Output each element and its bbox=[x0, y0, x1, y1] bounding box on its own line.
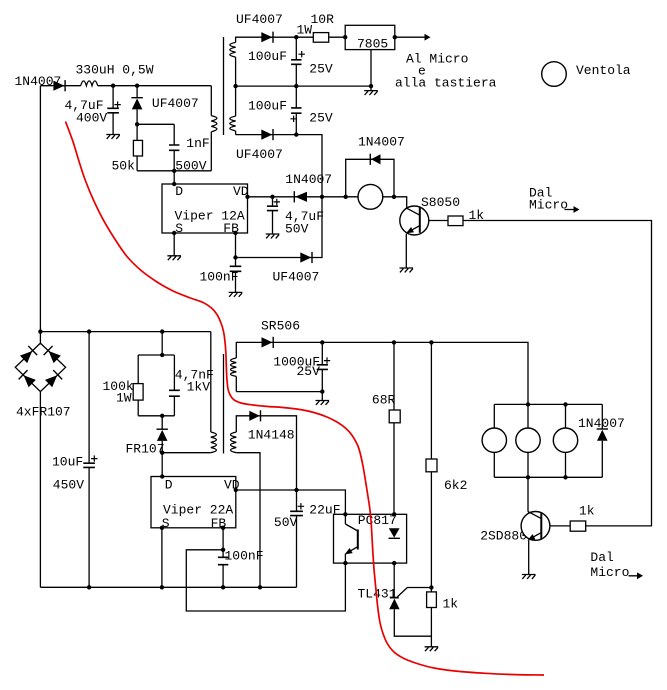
svg-text:alla tastiera: alla tastiera bbox=[395, 75, 497, 90]
svg-text:450V: 450V bbox=[53, 478, 84, 493]
svg-text:1k: 1k bbox=[579, 503, 595, 518]
svg-text:25V: 25V bbox=[309, 61, 333, 76]
svg-text:25V: 25V bbox=[297, 364, 321, 379]
svg-text:68R: 68R bbox=[372, 393, 396, 408]
svg-text:1k: 1k bbox=[443, 597, 459, 612]
svg-text:100nF: 100nF bbox=[225, 549, 264, 564]
svg-text:500V: 500V bbox=[175, 158, 206, 173]
svg-text:2SD880: 2SD880 bbox=[480, 529, 527, 544]
svg-text:1N4007: 1N4007 bbox=[285, 172, 332, 187]
svg-text:Micro: Micro bbox=[590, 565, 629, 580]
svg-text:1N4148: 1N4148 bbox=[248, 428, 295, 443]
svg-text:D: D bbox=[165, 477, 173, 492]
svg-text:10R: 10R bbox=[311, 12, 335, 27]
svg-text:PC817: PC817 bbox=[358, 513, 397, 528]
svg-text:Dal: Dal bbox=[590, 550, 614, 565]
svg-text:Al Micro: Al Micro bbox=[406, 52, 468, 67]
svg-text:4xFR107: 4xFR107 bbox=[16, 404, 71, 419]
svg-text:1N4007: 1N4007 bbox=[358, 135, 405, 150]
svg-text:10uF: 10uF bbox=[52, 454, 83, 469]
svg-text:50V: 50V bbox=[285, 221, 309, 236]
svg-text:UF4007: UF4007 bbox=[236, 147, 283, 162]
svg-text:25V: 25V bbox=[309, 111, 333, 126]
svg-text:1kV: 1kV bbox=[187, 380, 211, 395]
svg-text:100uF: 100uF bbox=[248, 99, 287, 114]
svg-text:S8050: S8050 bbox=[421, 195, 460, 210]
svg-text:6k2: 6k2 bbox=[444, 478, 467, 493]
svg-text:1nF: 1nF bbox=[186, 136, 209, 151]
svg-text:Ventola: Ventola bbox=[576, 63, 631, 78]
svg-text:50k: 50k bbox=[112, 158, 136, 173]
svg-text:UF4007: UF4007 bbox=[273, 269, 320, 284]
svg-text:22uF: 22uF bbox=[309, 503, 340, 518]
svg-text:Micro: Micro bbox=[529, 197, 568, 212]
svg-text:UF4007: UF4007 bbox=[152, 96, 199, 111]
svg-text:1W: 1W bbox=[297, 23, 313, 38]
svg-text:1k: 1k bbox=[469, 208, 485, 223]
svg-text:1W: 1W bbox=[116, 391, 132, 406]
svg-text:330uH 0,5W: 330uH 0,5W bbox=[76, 63, 154, 78]
svg-text:7805: 7805 bbox=[357, 37, 388, 52]
svg-text:S: S bbox=[175, 221, 183, 236]
svg-text:UF4007: UF4007 bbox=[236, 12, 283, 27]
svg-text:D: D bbox=[175, 184, 183, 199]
svg-text:100uF: 100uF bbox=[248, 49, 287, 64]
svg-text:400V: 400V bbox=[76, 110, 107, 125]
svg-text:SR506: SR506 bbox=[261, 319, 300, 334]
svg-text:FR107: FR107 bbox=[126, 442, 165, 457]
svg-text:50V: 50V bbox=[274, 515, 298, 530]
